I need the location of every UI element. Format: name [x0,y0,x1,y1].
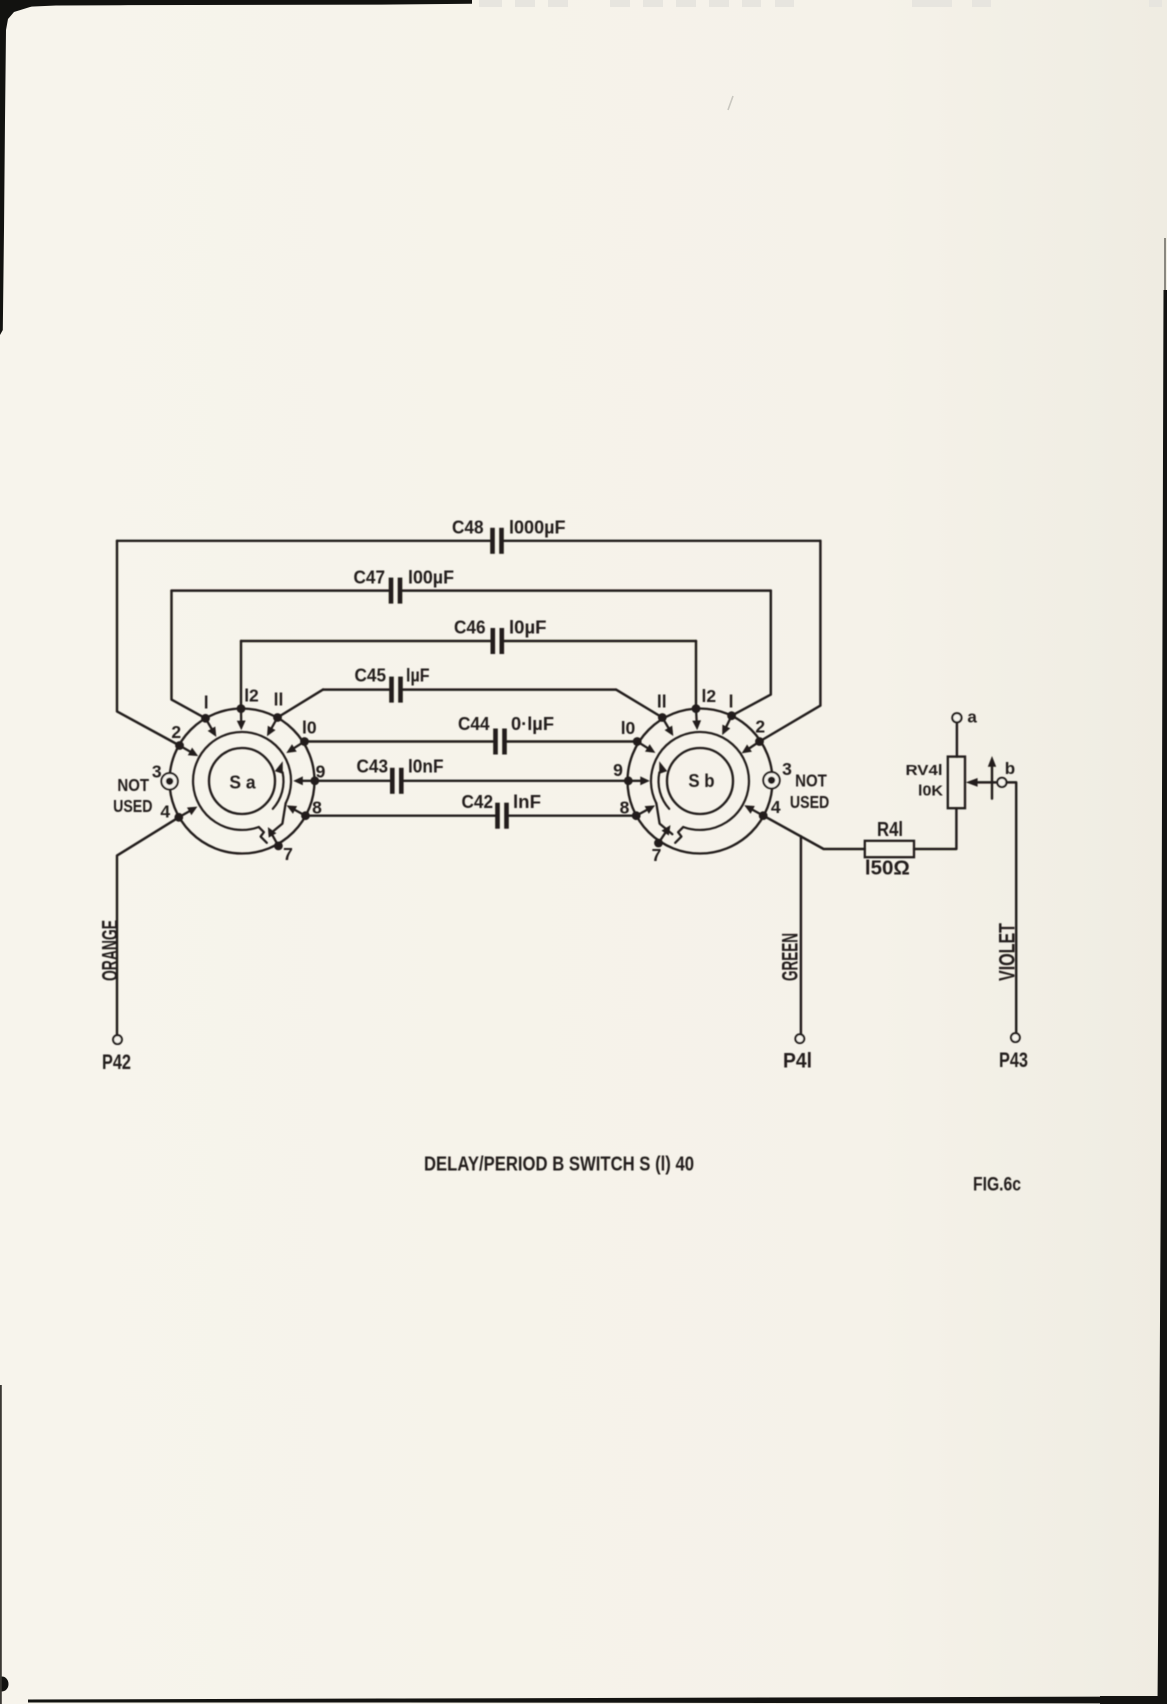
wire C47 right riser to Sb pin 1 [732,591,771,716]
svg-text:l2: l2 [244,686,259,706]
Sa contact 7 [268,827,283,850]
svg-text:l0K: l0K [918,784,944,800]
wire Sb pin 4 to R41 [763,816,865,849]
net label GREEN [778,933,803,981]
svg-text:P42: P42 [102,1051,131,1074]
rotary switch Sb body [628,709,773,854]
net label VIOLET [994,923,1019,981]
svg-text:USED: USED [790,792,829,812]
svg-text:C42: C42 [462,791,494,812]
svg-text:C47: C47 [354,567,386,588]
scan artifact: top edge bar [0,0,472,8]
Sa pin label 4 [160,802,170,822]
Sb pin label 11 [657,692,667,712]
capacitor C47 100µF [172,567,771,604]
Sb pin label 9 [613,760,623,780]
wire terminal b to P43 (violet) [1007,782,1017,1033]
Sa contact 11 [267,713,282,736]
svg-text:FIG.6c: FIG.6c [973,1174,1021,1196]
potentiometer RV41 10K [906,757,966,809]
wire C48 left riser to Sa pin 2 [117,541,180,746]
wire RV41 top to terminal a [956,722,958,756]
Sb contact 3 (not used) [763,772,779,788]
Sa pin label 10 [302,718,317,738]
svg-text:9: 9 [316,762,326,782]
net label ORANGE [97,920,122,981]
Sa pin label 3 [152,762,162,782]
wire C45 left diagonal to Sa pin 11 [278,690,324,718]
svg-text:b: b [1005,759,1015,778]
capacitor C43 10nF [315,756,629,794]
svg-text:l0: l0 [621,718,636,738]
scan artifact: faint mark [728,96,733,110]
scan artifact: left edge strip [0,0,55,335]
Sa pin label 9 [316,762,326,782]
Sb contact 4 [744,805,767,820]
Sa contact 9 [293,776,319,785]
svg-text:a: a [967,708,977,727]
wire green drop to P41 [800,836,802,1034]
svg-text:l50Ω: l50Ω [865,858,910,880]
Sb pin label 3 [782,759,792,779]
Sb pin label 4 [771,797,781,817]
resistor R41 150Ω [865,819,914,880]
svg-text:lnF: lnF [513,791,541,812]
Sa pin label 12 [244,686,259,706]
Sa contact 12 [237,704,246,730]
terminal P42 [102,1035,131,1074]
scan artifact: right edge strip [1158,238,1167,1704]
scan artifact: bottom edge bar [0,1385,1167,1704]
capacitor C46 10µF [241,617,696,655]
Sb pin label 10 [621,718,636,738]
svg-text:3: 3 [152,762,162,782]
svg-text:4: 4 [771,797,781,817]
wire R41 to RV41 [914,808,956,849]
svg-text:l00µF: l00µF [408,567,454,588]
svg-text:ll: ll [657,692,667,712]
Sa pin label 11 [274,690,284,710]
svg-text:7: 7 [283,844,293,864]
svg-text:C44: C44 [458,713,490,734]
svg-text:VIOLET: VIOLET [994,923,1019,981]
wire C46 right riser to Sb pin 12 [695,641,697,709]
Sb contact 10 [633,737,656,753]
Sb contact 12 [692,704,702,730]
svg-text:4: 4 [160,802,170,822]
svg-text:R4l: R4l [877,819,903,841]
svg-text:8: 8 [620,798,630,818]
capacitor C45 1µF [323,665,616,703]
svg-text:2: 2 [171,722,181,742]
capacitor C42 1nF [307,791,636,829]
capacitor C44 0.1µF [305,713,638,755]
terminal a [952,708,977,727]
Sb pin label 8 [620,798,630,818]
terminal P41 [783,1034,812,1072]
svg-text:C45: C45 [355,665,387,686]
svg-text:DELAY/PERIOD B SWITCH S (l) 40: DELAY/PERIOD B SWITCH S (l) 40 [424,1153,694,1176]
Sa NOT USED label [113,775,152,816]
svg-text:l0µF: l0µF [509,617,547,638]
svg-text:ORANGE: ORANGE [97,920,122,981]
svg-text:9: 9 [613,760,623,780]
title DELAY/PERIOD B SWITCH S(1)40 [424,1153,694,1176]
Sb pin label 12 [701,686,716,706]
svg-text:0·lµF: 0·lµF [511,713,554,734]
svg-text:S b: S b [688,770,714,791]
figure label FIG.6c [973,1174,1021,1196]
svg-text:lµF: lµF [406,665,430,686]
terminal b [997,759,1015,787]
switch Sa designator [229,772,256,793]
Sb contact 9 [624,776,650,785]
Sa pin label 1 [204,693,209,713]
Sb NOT USED label [790,771,829,813]
svg-text:l2: l2 [701,686,716,706]
Sa pin label 2 [171,722,181,742]
Sa contact 3 (not used) [161,773,177,789]
svg-text:ll: ll [274,690,284,710]
svg-text:7: 7 [652,845,662,865]
svg-text:C48: C48 [452,517,484,538]
Sb pin label 1 [729,692,734,712]
svg-text:USED: USED [113,796,152,816]
wire C45 right diagonal to Sb pin 11 [616,690,662,718]
wire C48 right riser to Sb pin 2 [760,541,821,742]
Sa contact 2 [175,741,198,756]
svg-text:S a: S a [229,772,256,793]
capacitor C48 1000µF [117,517,820,554]
svg-text:P4l: P4l [783,1050,812,1073]
wire Sa pin 4 to P42 (orange) [117,817,179,1035]
RV41 wiper arrow [966,756,997,799]
Sa pin label 8 [312,798,322,818]
rotary switch Sa body [170,709,315,854]
svg-text:GREEN: GREEN [778,933,803,981]
svg-text:l: l [729,692,734,712]
svg-text:l000µF: l000µF [509,517,566,538]
Sa contact 8 [287,805,310,820]
svg-text:l0nF: l0nF [408,756,444,777]
svg-text:l: l [204,693,209,713]
svg-text:RV4l: RV4l [906,763,943,779]
Sb pin label 2 [755,717,765,737]
terminal P43 [999,1033,1028,1072]
Sb pin label 7 [652,845,662,865]
Sa contact 4 [174,807,197,822]
svg-text:l0: l0 [302,718,317,738]
switch Sb designator [688,770,714,791]
Sa pin label 7 [283,844,293,864]
Sb contact 1 [722,711,736,735]
svg-text:2: 2 [755,717,765,737]
Sb contact 7 [654,825,670,847]
svg-text:NOT: NOT [117,775,149,795]
wire C46 left riser to Sa pin 12 [240,641,242,709]
svg-text:P43: P43 [999,1049,1028,1072]
Sb contact 2 [742,737,764,753]
Sb contact 8 [632,805,655,820]
svg-text:8: 8 [312,798,322,818]
Sa contact 1 [201,714,216,737]
svg-text:C46: C46 [454,617,486,638]
svg-text:NOT: NOT [795,771,827,791]
wire C47 left riser to Sa pin 1 [172,591,206,719]
Sb contact 11 [658,713,673,736]
scan artifact: top sprocket marks [479,0,1162,7]
svg-text:3: 3 [782,759,792,779]
svg-text:C43: C43 [357,756,389,777]
Sa contact 10 [286,737,309,753]
